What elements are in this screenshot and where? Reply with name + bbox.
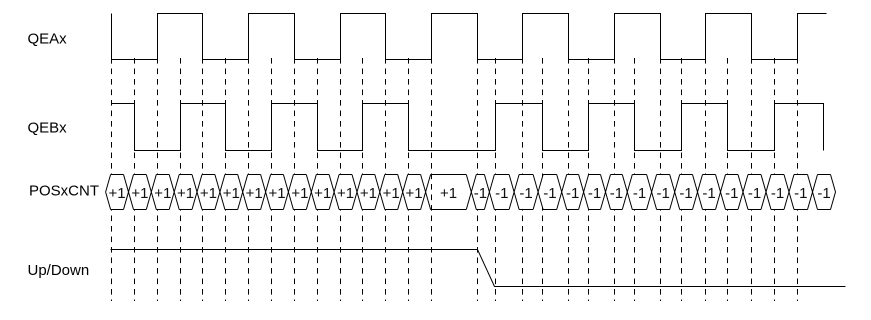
svg-text:+1: +1	[246, 185, 263, 202]
svg-text:-1: -1	[702, 185, 715, 202]
signal QEAx waveform	[112, 14, 827, 60]
POSxCNT cell 2: value +1	[124, 175, 152, 210]
count event grid dashed line x=271.5	[271, 58, 273, 301]
POSxCNT cell 8: value +1	[261, 175, 289, 210]
signal Up/Down waveform	[111, 250, 846, 287]
svg-text:+1: +1	[177, 185, 194, 202]
POSxCNT cell 23: value -1	[622, 175, 651, 210]
POSxCNT cell 30: value -1	[784, 175, 813, 210]
svg-text:-1: -1	[748, 185, 761, 202]
count event grid dashed line x=294.5	[294, 58, 296, 301]
POSxCNT cell 14: value +1	[398, 175, 426, 210]
POSxCNT cell 25: value -1	[670, 175, 698, 210]
POSxCNT cell 29: value -1	[761, 175, 789, 210]
svg-text:+1: +1	[406, 185, 423, 202]
count event grid dashed line x=248.5	[248, 58, 250, 301]
svg-text:-1: -1	[771, 185, 784, 202]
svg-text:+1: +1	[314, 185, 331, 202]
POSxCNT cell 15: value +1 (wide, count pause)	[421, 58, 472, 301]
count event grid dashed line x=495.5	[495, 58, 497, 301]
svg-text:QEAx: QEAx	[28, 31, 68, 48]
svg-text:-1: -1	[566, 185, 579, 202]
count event grid dashed line x=111.5	[111, 58, 113, 301]
svg-text:-1: -1	[610, 185, 623, 202]
svg-text:-1: -1	[588, 185, 601, 202]
svg-text:-1: -1	[495, 185, 508, 202]
svg-text:+1: +1	[337, 185, 354, 202]
POSxCNT cell 5: value +1	[192, 175, 220, 210]
count event grid dashed line x=522.5	[522, 58, 524, 301]
POSxCNT cell 1: value +1	[106, 175, 129, 210]
POSxCNT cell 6: value +1	[215, 175, 243, 210]
svg-text:-1: -1	[543, 185, 556, 202]
POSxCNT cell 22: value -1	[601, 175, 628, 210]
svg-text:POSxCNT: POSxCNT	[29, 183, 99, 200]
count event grid dashed line x=202.5	[202, 58, 204, 301]
POSxCNT cell 27: value -1	[716, 175, 744, 210]
svg-text:-1: -1	[725, 185, 738, 202]
POSxCNT cell 12: value +1	[352, 175, 380, 210]
svg-text:-1: -1	[794, 185, 807, 202]
POSxCNT cell 24: value -1	[647, 175, 675, 210]
POSxCNT cell 17: value -1	[484, 175, 514, 210]
POSxCNT cell 28: value -1	[738, 175, 766, 210]
svg-text:+1: +1	[383, 185, 400, 202]
POSxCNT cell 26: value -1	[693, 175, 721, 210]
POSxCNT cell 7: value +1	[238, 175, 266, 210]
count event grid dashed line x=157.5	[157, 58, 159, 301]
count event grid dashed line x=727.5	[727, 58, 729, 301]
count event grid dashed line x=180.5	[180, 58, 182, 301]
count event grid dashed line x=362.5	[362, 58, 364, 301]
count event grid dashed line x=568.5	[568, 58, 570, 301]
svg-text:+1: +1	[131, 185, 148, 202]
POSxCNT cell 10: value +1	[306, 175, 334, 210]
POSxCNT cell 4: value +1	[169, 175, 197, 210]
svg-text:+1: +1	[154, 185, 171, 202]
count event grid dashed line x=681.5	[681, 58, 683, 301]
POSxCNT cell 31: value -1	[808, 175, 836, 210]
POSxCNT cell 9: value +1	[283, 175, 311, 210]
count event grid dashed line x=634.5	[634, 58, 636, 301]
svg-text:-1: -1	[474, 185, 487, 202]
svg-text:Up/Down: Up/Down	[28, 262, 90, 279]
svg-text:QEBx: QEBx	[28, 120, 68, 137]
POSxCNT cell 21: value -1	[579, 175, 606, 210]
count event grid dashed line x=797.5	[797, 58, 799, 301]
count event grid dashed line x=660.5	[660, 58, 662, 301]
POSxCNT cell 13: value +1	[375, 175, 403, 210]
count event grid dashed line x=134.5	[134, 58, 136, 301]
svg-text:+1: +1	[360, 185, 377, 202]
POSxCNT cell 3: value +1	[146, 175, 174, 210]
svg-text:+1: +1	[291, 185, 308, 202]
svg-text:-1: -1	[633, 185, 646, 202]
count event grid dashed line x=225.5	[225, 58, 227, 301]
POSxCNT cell 11: value +1	[329, 175, 357, 210]
POSxCNT cell 18: value -1	[509, 175, 538, 210]
count event grid dashed line x=340.5	[340, 58, 342, 301]
svg-text:-1: -1	[817, 185, 830, 202]
count event grid dashed line x=774.5	[774, 58, 776, 301]
svg-text:+1: +1	[268, 185, 285, 202]
count event grid dashed line x=705.5	[705, 58, 707, 301]
count event grid dashed line x=477.5	[477, 58, 479, 301]
count event grid dashed line x=542.5	[542, 58, 544, 301]
POSxCNT cell 20: value -1	[557, 175, 584, 210]
svg-text:-1: -1	[657, 185, 670, 202]
count event grid dashed line x=751.5	[751, 58, 753, 301]
count event grid dashed line x=317.5	[317, 58, 319, 301]
POSxCNT cell 16: value -1	[466, 175, 489, 210]
svg-text:+1: +1	[223, 185, 240, 202]
signal QEBx waveform	[112, 104, 824, 151]
count event grid dashed line x=588.5	[588, 58, 590, 301]
count event grid dashed line x=385.5	[385, 58, 387, 301]
svg-text:-1: -1	[519, 185, 532, 202]
count event grid dashed line x=614.5	[614, 58, 616, 301]
POSxCNT cell 19: value -1	[533, 175, 562, 210]
svg-text:-1: -1	[679, 185, 692, 202]
count event grid dashed line x=408.5	[408, 58, 410, 301]
svg-text:+1: +1	[200, 185, 217, 202]
svg-text:+1: +1	[440, 185, 457, 202]
svg-text:+1: +1	[108, 185, 125, 202]
